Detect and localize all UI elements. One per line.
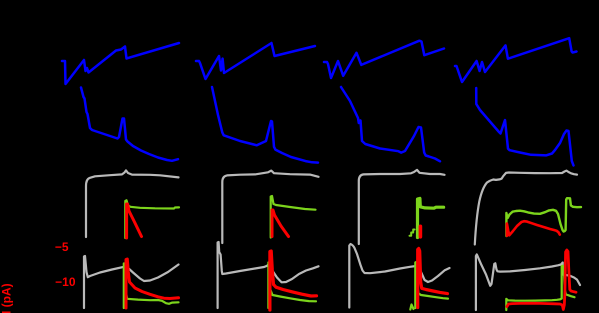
row3 col2 green (271, 196, 316, 238)
row2 col3 blue (341, 87, 440, 161)
row4 col4 red (507, 250, 576, 310)
row2 col2 blue (212, 87, 318, 163)
row1 col3 blue (324, 41, 444, 78)
row4 col4 gray (476, 254, 580, 310)
row3 col2 gray (222, 171, 318, 243)
row4 col3 red (418, 249, 448, 308)
svg-text:−5: −5 (55, 240, 69, 254)
row3 col2 red (272, 210, 289, 237)
row3 col1 gray (86, 170, 179, 237)
row4 col2 red (270, 251, 317, 310)
row4 col4 green (506, 266, 574, 310)
row3 col4 green (506, 198, 581, 236)
row4 col3 green (415, 262, 448, 308)
row3 col4 red (507, 221, 560, 236)
row1 col1 blue (62, 43, 179, 84)
svg-text:−10: −10 (55, 275, 76, 289)
row2 col1 blue (81, 88, 178, 161)
row4 col1 red (126, 259, 179, 308)
row4 col1 gray (84, 256, 179, 308)
row4 col2 green (268, 263, 316, 309)
row3 col3 green (418, 198, 444, 237)
row2 col4 blue (476, 88, 573, 165)
row3 col3 green pre-bump (410, 230, 415, 236)
row3 col4 gray (475, 171, 577, 245)
row3 col1 red (127, 204, 142, 238)
row1 col2 blue (196, 43, 315, 79)
row4 col1 green (124, 264, 179, 309)
row3 col1 green (125, 200, 179, 238)
row1 col4 blue (455, 38, 577, 82)
row3 col3 gray (359, 170, 445, 244)
svg-text:I (pA): I (pA) (0, 283, 14, 313)
row4 col2 gray (218, 242, 319, 308)
row4 col3 gray (349, 244, 449, 308)
row4 col3 green pre-bump (410, 305, 413, 310)
row3 col3 red (419, 226, 423, 237)
